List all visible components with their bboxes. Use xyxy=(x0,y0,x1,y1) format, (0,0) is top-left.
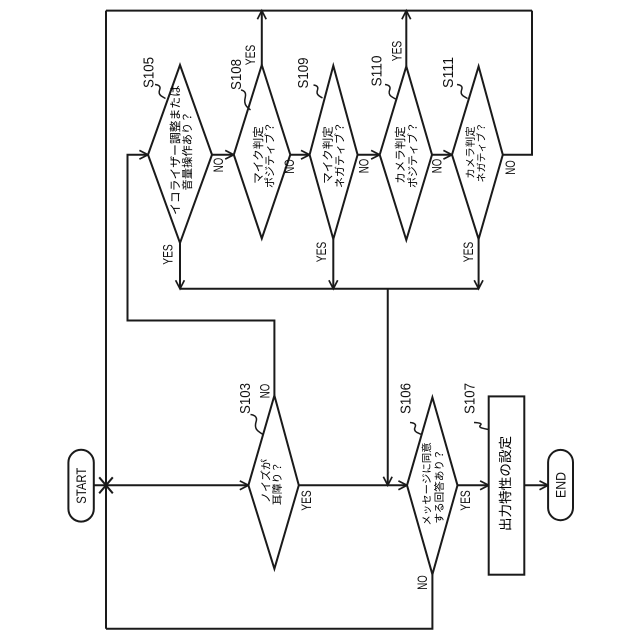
label S111 xyxy=(440,57,467,99)
label S109 xyxy=(295,58,323,99)
label S108 xyxy=(228,59,251,110)
svg-text:NO: NO xyxy=(429,159,444,174)
svg-text:NO: NO xyxy=(258,384,273,399)
svg-text:NO: NO xyxy=(211,158,226,173)
decision S108 xyxy=(234,65,290,239)
terminal START xyxy=(68,450,93,522)
svg-text:S107: S107 xyxy=(461,383,478,414)
wire S111 NO return (right side up to top) xyxy=(503,11,532,155)
decision S110 xyxy=(380,66,432,240)
wire left feedback line xyxy=(105,11,107,629)
decision S106 xyxy=(407,397,458,574)
svg-text:NO: NO xyxy=(503,160,518,175)
label S110 xyxy=(369,56,396,100)
decision S105 xyxy=(148,65,212,243)
label S107 xyxy=(461,383,488,430)
svg-text:YES: YES xyxy=(458,490,473,511)
svg-text:S110: S110 xyxy=(369,56,386,87)
wire S106 NO bottom return xyxy=(106,574,432,628)
label S106 xyxy=(398,383,422,435)
wire S106 YES to S107 xyxy=(458,481,489,490)
wire S107 to END xyxy=(524,481,548,490)
decision S111 xyxy=(452,66,503,239)
svg-text:NO: NO xyxy=(415,575,430,590)
svg-text:YES: YES xyxy=(299,490,314,511)
wire merge downleg to S106 input xyxy=(383,289,392,486)
svg-text:YES: YES xyxy=(389,41,404,62)
svg-text:START: START xyxy=(73,467,89,503)
label S103 xyxy=(237,383,263,435)
wire S103 YES to S106 xyxy=(299,481,407,490)
wire S109 YES down xyxy=(329,239,338,289)
svg-text:YES: YES xyxy=(243,45,258,66)
wire START to S103 xyxy=(94,481,249,490)
wire S105 NO to S108 xyxy=(212,150,234,159)
wire S109 NO to S110 xyxy=(358,150,380,159)
svg-text:S109: S109 xyxy=(295,58,312,89)
svg-text:YES: YES xyxy=(314,242,329,263)
decision S103 xyxy=(248,396,298,569)
wire S110 YES up xyxy=(402,11,411,67)
wire S108 YES up xyxy=(257,11,266,65)
wire S111 YES down xyxy=(474,239,483,289)
svg-text:S111: S111 xyxy=(440,57,457,88)
wire S105 YES down xyxy=(176,243,185,289)
junction X at START merge xyxy=(99,477,113,493)
svg-text:S105: S105 xyxy=(141,57,158,88)
svg-text:S103: S103 xyxy=(237,383,254,414)
process S107 xyxy=(489,396,525,574)
label S105 xyxy=(141,57,166,99)
wire S110 NO to S111 xyxy=(432,150,452,159)
svg-text:NO: NO xyxy=(282,159,297,174)
wire S103 NO loop to S105 xyxy=(128,150,275,395)
svg-text:YES: YES xyxy=(461,242,476,263)
svg-text:END: END xyxy=(553,472,569,498)
svg-text:YES: YES xyxy=(160,244,175,265)
svg-text:S106: S106 xyxy=(398,383,415,414)
svg-text:NO: NO xyxy=(356,159,371,174)
wire top feedback line xyxy=(106,10,532,12)
decision S109 xyxy=(310,66,358,239)
wire merge line xyxy=(180,288,479,290)
terminal END xyxy=(548,450,573,520)
wire S108 NO to S109 xyxy=(290,150,309,159)
